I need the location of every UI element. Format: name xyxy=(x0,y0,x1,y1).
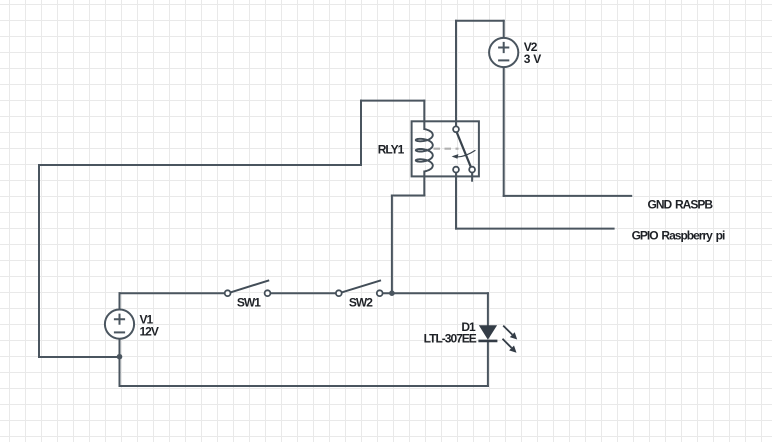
relay actuation dashed link xyxy=(434,148,459,150)
svg-text:RLY1: RLY1 xyxy=(378,143,405,157)
wire left vertical xyxy=(38,165,40,357)
relay contact pins xyxy=(453,126,475,172)
LED D1 xyxy=(478,325,517,353)
wire switch row V1 to SW1 xyxy=(120,292,225,294)
relay RLY1 xyxy=(412,121,479,176)
wire LED top lead xyxy=(487,293,489,325)
wire relay common contact down xyxy=(455,173,457,229)
svg-text:GND RASPB: GND RASPB xyxy=(648,198,714,212)
svg-text:3 V: 3 V xyxy=(524,52,542,66)
svg-text:LTL-307EE: LTL-307EE xyxy=(424,332,477,346)
voltage source V1 xyxy=(105,310,134,339)
relay coil xyxy=(416,129,433,172)
relay blade xyxy=(457,132,471,167)
wire GND RASPB horizontal xyxy=(504,195,632,197)
LED light arrow 1 xyxy=(503,326,512,335)
svg-text:12V: 12V xyxy=(140,324,159,338)
wire horizontal y100 to coil xyxy=(361,100,424,102)
wire bottom horizontal xyxy=(120,385,488,387)
node junction V1 bottom xyxy=(117,354,123,360)
wire coil top lead xyxy=(423,101,425,129)
wire V2 bottom lead down xyxy=(503,68,505,196)
svg-text:GPIO Raspberry pi: GPIO Raspberry pi xyxy=(632,229,725,243)
switch SW1 xyxy=(225,280,271,296)
relay throw arrow xyxy=(454,150,476,157)
wire relay NO contact stub xyxy=(471,173,473,181)
wire relay top contact riser xyxy=(455,21,457,127)
svg-text:SW1: SW1 xyxy=(237,295,261,309)
wire riser x361 xyxy=(360,101,362,165)
wire horizontal y195 xyxy=(392,195,424,197)
switch SW2 xyxy=(336,280,383,296)
wire SW1 to SW2 xyxy=(270,292,336,294)
svg-text:SW2: SW2 xyxy=(349,295,373,309)
wire V1 top lead xyxy=(119,293,121,308)
voltage source V2 xyxy=(489,38,518,67)
wire coil bottom lead xyxy=(423,172,425,196)
wire left bottom horizontal to V1 xyxy=(39,356,120,358)
wire top-left horizontal xyxy=(39,164,361,166)
wire top horizontal to V2 xyxy=(456,20,504,22)
wire vertical x392 down to switch row xyxy=(391,196,393,294)
wire LED bottom lead xyxy=(487,341,489,386)
LED light arrow 2 xyxy=(503,339,512,348)
wire GPIO horizontal xyxy=(456,228,614,230)
wire V1 bottom lead xyxy=(119,340,121,386)
wire V2 top lead xyxy=(503,21,505,37)
wire SW2 to LED branch xyxy=(383,292,488,294)
node junction switch row xyxy=(389,290,395,296)
